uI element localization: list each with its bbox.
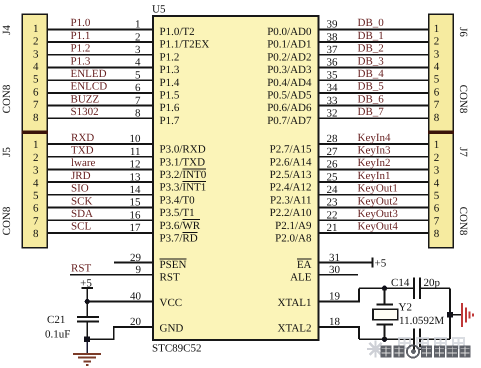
- wire net ENLED (J4.5 to U5.5): [47, 79, 153, 81]
- separator bar between J4 and J5: [21, 131, 48, 134]
- svg-text:34: 34: [327, 82, 339, 94]
- svg-text:7: 7: [33, 215, 39, 227]
- crystal Y2 top plate: [377, 304, 393, 306]
- svg-text:12: 12: [130, 159, 141, 171]
- svg-text:6: 6: [33, 203, 39, 215]
- svg-text:26: 26: [327, 159, 339, 171]
- svg-text:P2.3/A11: P2.3/A11: [270, 194, 311, 206]
- svg-text:11: 11: [130, 146, 141, 158]
- wire net lware (J5.3 to U5.12): [47, 168, 153, 170]
- wire net KeyOut3 (U5.22 to J7.7): [319, 219, 429, 221]
- svg-text:7: 7: [434, 215, 440, 227]
- capacitor C14b (bottom) left plate: [413, 329, 415, 351]
- separator bar between J6 and J7: [428, 131, 454, 134]
- svg-text:J6: J6: [457, 27, 469, 37]
- svg-text:1: 1: [135, 19, 141, 31]
- svg-text:19: 19: [329, 291, 341, 303]
- svg-text:14: 14: [130, 184, 142, 196]
- ground (C21) lead: [86, 342, 88, 354]
- svg-text:KeyIn2: KeyIn2: [358, 157, 391, 169]
- svg-text:40: 40: [130, 291, 142, 303]
- svg-text:20p: 20p: [424, 277, 441, 289]
- wire net P1.3 (J4.4 to U5.4): [47, 67, 153, 69]
- svg-text:P0.5/AD5: P0.5/AD5: [267, 90, 312, 102]
- wire right rail (caps to ground): [449, 288, 451, 339]
- svg-text:36: 36: [327, 57, 339, 69]
- svg-text:3: 3: [434, 48, 440, 60]
- svg-text:P2.1/A9: P2.1/A9: [275, 220, 312, 232]
- svg-text:STC89C52: STC89C52: [152, 343, 202, 355]
- wire net RXD (J5.1 to U5.10): [47, 143, 153, 145]
- svg-text:7: 7: [33, 99, 39, 111]
- ground (C21) bar 3: [84, 360, 92, 362]
- svg-text:KeyIn1: KeyIn1: [358, 170, 391, 182]
- svg-text:XTAL2: XTAL2: [278, 322, 312, 334]
- svg-text:1: 1: [434, 139, 440, 151]
- wire net KeyIn1 (U5.25 to J7.4): [319, 181, 429, 183]
- svg-text:KeyIn4: KeyIn4: [358, 132, 391, 144]
- svg-text:22: 22: [327, 209, 338, 221]
- wire net DB_5 (U5.34 to J6.6): [319, 92, 429, 94]
- svg-text:CON8: CON8: [457, 85, 469, 114]
- watermark text 头条@芯闻资讯: [381, 345, 471, 357]
- svg-text:P2.5/A13: P2.5/A13: [270, 169, 312, 181]
- svg-text:J7: J7: [457, 147, 469, 157]
- svg-text:P1.2: P1.2: [160, 51, 180, 63]
- svg-text:SIO: SIO: [71, 183, 89, 195]
- svg-text:2: 2: [434, 36, 440, 48]
- svg-text:37: 37: [327, 44, 339, 56]
- wire net SIO (J5.5 to U5.14): [47, 194, 153, 196]
- svg-text:RST: RST: [71, 263, 91, 275]
- svg-text:6: 6: [135, 82, 141, 94]
- IC U5 STC89C52 body: [153, 16, 319, 340]
- svg-text:P0.6/AD6: P0.6/AD6: [267, 102, 312, 114]
- svg-text:P3.7/RD: P3.7/RD: [160, 233, 198, 245]
- svg-text:8: 8: [135, 108, 141, 120]
- svg-text:2: 2: [33, 36, 39, 48]
- svg-text:P1.3: P1.3: [71, 55, 91, 67]
- wire bottom rail right segment: [421, 338, 450, 340]
- svg-text:EA: EA: [297, 259, 312, 271]
- svg-text:2: 2: [33, 152, 39, 164]
- svg-text:DB_4: DB_4: [358, 68, 385, 80]
- wire net DB_2 (U5.37 to J6.3): [319, 54, 429, 56]
- svg-text:XTAL1: XTAL1: [278, 297, 312, 309]
- capacitor C14b (bottom) right plate: [419, 329, 421, 351]
- svg-text:1: 1: [33, 139, 39, 151]
- node junction right rail: [447, 312, 453, 318]
- wire net BUZZ (J4.7 to U5.7): [47, 105, 153, 107]
- svg-text:DB_3: DB_3: [358, 55, 385, 67]
- ground (crystal) bar 3: [468, 311, 470, 318]
- svg-text:3: 3: [33, 48, 39, 60]
- power +5 (EA) crossbar: [371, 258, 373, 268]
- wire net KeyOut1 (U5.24 to J7.5): [319, 194, 429, 196]
- svg-text:P0.2/AD2: P0.2/AD2: [267, 51, 311, 63]
- svg-text:9: 9: [136, 264, 142, 276]
- svg-text:8: 8: [33, 112, 39, 124]
- connector J5 (CON8): [22, 132, 47, 247]
- svg-text:ALE: ALE: [290, 271, 312, 283]
- wire net TXD (J5.2 to U5.11): [47, 156, 153, 158]
- wire net KeyIn3 (U5.27 to J7.2): [319, 156, 429, 158]
- svg-text:KeyOut3: KeyOut3: [358, 208, 399, 220]
- wire GND (U5.20 down): [87, 327, 153, 339]
- svg-text:3: 3: [135, 44, 141, 56]
- svg-text:6: 6: [434, 86, 440, 98]
- capacitor C14 (top) left plate: [413, 278, 415, 300]
- wire stub ALE (U5.30): [319, 274, 359, 276]
- svg-text:16: 16: [130, 209, 142, 221]
- capacitor C21 upper lead: [86, 302, 88, 317]
- svg-text:DB_0: DB_0: [358, 17, 385, 29]
- wire net SCL (J5.8 to U5.17): [47, 232, 153, 234]
- svg-text:15: 15: [130, 197, 142, 209]
- svg-text:TXD: TXD: [71, 145, 94, 157]
- wire net DB_6 (U5.33 to J6.7): [319, 105, 429, 107]
- svg-text:C14: C14: [391, 277, 410, 289]
- wire net DB_0 (U5.39 to J6.1): [319, 28, 429, 30]
- svg-text:P3.3/INT1: P3.3/INT1: [160, 182, 207, 194]
- connector J7 (CON8): [429, 132, 454, 247]
- svg-text:P2.2/A10: P2.2/A10: [270, 207, 312, 219]
- wire net ENLCD (J4.6 to U5.6): [47, 92, 153, 94]
- svg-text:P0.7/AD7: P0.7/AD7: [267, 115, 312, 127]
- svg-text:P2.7/A15: P2.7/A15: [270, 144, 312, 156]
- svg-text:+5: +5: [80, 277, 92, 289]
- capacitor C14 (top) right plate: [419, 278, 421, 300]
- svg-text:P1.0/T2: P1.0/T2: [160, 26, 195, 38]
- svg-text:2: 2: [135, 31, 141, 43]
- svg-text:20: 20: [130, 316, 142, 328]
- svg-text:GND: GND: [160, 322, 184, 334]
- svg-text:32: 32: [327, 108, 338, 120]
- wire net SCK (J5.6 to U5.15): [47, 207, 153, 209]
- svg-text:7: 7: [135, 95, 141, 107]
- svg-text:31: 31: [329, 252, 340, 264]
- svg-text:RXD: RXD: [71, 132, 94, 144]
- svg-text:P1.6: P1.6: [160, 102, 180, 114]
- svg-text:8: 8: [434, 112, 440, 124]
- svg-text:ENLED: ENLED: [71, 68, 107, 80]
- svg-text:P1.0: P1.0: [71, 17, 91, 29]
- wire net P1.1 (J4.2 to U5.2): [47, 41, 153, 43]
- svg-text:30: 30: [329, 264, 341, 276]
- svg-text:5: 5: [434, 74, 440, 86]
- wire net KeyIn2 (U5.26 to J7.3): [319, 168, 429, 170]
- wire VCC (U5.40 to +5 node): [87, 301, 153, 303]
- svg-text:SDA: SDA: [71, 208, 93, 220]
- svg-text:24: 24: [327, 184, 339, 196]
- svg-text:11.0592M: 11.0592M: [399, 315, 444, 327]
- wire net DB_7 (U5.32 to J6.8): [319, 117, 429, 119]
- wire net JRD (J5.4 to U5.13): [47, 181, 153, 183]
- svg-text:25: 25: [327, 171, 339, 183]
- svg-text:3: 3: [434, 165, 440, 177]
- wire XTAL1 (U5.19 to crystal): [319, 288, 360, 301]
- svg-text:5: 5: [135, 69, 141, 81]
- wire net DB_3 (U5.36 to J6.4): [319, 67, 429, 69]
- svg-text:CON8: CON8: [1, 84, 13, 113]
- wire net DB_4 (U5.35 to J6.5): [319, 79, 429, 81]
- svg-text:5: 5: [33, 190, 39, 202]
- svg-text:13: 13: [130, 171, 142, 183]
- svg-text:28: 28: [327, 133, 339, 145]
- capacitor C21 top plate: [77, 316, 99, 318]
- wire net DB_1 (U5.38 to J6.2): [319, 41, 429, 43]
- svg-text:35: 35: [327, 69, 339, 81]
- wire stub PSEN (U5.29): [114, 262, 153, 264]
- power +5 (VCC rail) lead: [86, 288, 88, 302]
- wire net KeyOut2 (U5.23 to J7.6): [319, 207, 429, 209]
- svg-text:P3.6/WR: P3.6/WR: [160, 220, 201, 232]
- svg-text:KeyIn3: KeyIn3: [358, 145, 391, 157]
- svg-text:1: 1: [33, 23, 39, 35]
- svg-text:P1.1/T2EX: P1.1/T2EX: [160, 39, 210, 51]
- svg-text:C21: C21: [47, 314, 65, 326]
- svg-text:38: 38: [327, 31, 339, 43]
- svg-text:P3.2/INT0: P3.2/INT0: [160, 169, 207, 181]
- wire net P1.0 (J4.1 to U5.1): [47, 28, 153, 30]
- svg-text:U5: U5: [152, 3, 166, 15]
- svg-text:P3.0/RXD: P3.0/RXD: [160, 144, 206, 156]
- svg-text:8: 8: [434, 228, 440, 240]
- node junction C21/GND: [84, 337, 90, 343]
- svg-text:P2.6/A14: P2.6/A14: [270, 156, 312, 168]
- crystal Y2 body: [373, 309, 398, 320]
- wire net KeyOut4 (U5.21 to J7.8): [319, 232, 429, 234]
- svg-text:P3.1/TXD: P3.1/TXD: [160, 156, 206, 168]
- svg-text:DB_7: DB_7: [358, 106, 385, 118]
- svg-text:P0.3/AD3: P0.3/AD3: [267, 64, 312, 76]
- capacitor C21 bottom plate: [77, 321, 99, 323]
- wire top rail XTAL1 node: [359, 287, 413, 289]
- svg-text:23: 23: [327, 197, 339, 209]
- wire net RST (U5.9): [70, 274, 153, 276]
- svg-text:4: 4: [434, 61, 440, 73]
- svg-text:P3.5/T1: P3.5/T1: [160, 207, 195, 219]
- svg-text:P1.4: P1.4: [160, 77, 180, 89]
- watermark ghost text: [399, 338, 464, 348]
- svg-text:BUZZ: BUZZ: [71, 93, 100, 105]
- svg-text:6: 6: [434, 203, 440, 215]
- svg-text:6: 6: [33, 86, 39, 98]
- svg-text:CON8: CON8: [1, 206, 13, 235]
- svg-text:S1302: S1302: [71, 106, 99, 118]
- svg-text:J4: J4: [1, 25, 13, 35]
- node junction on VCC wire: [85, 299, 90, 304]
- svg-text:0.1uF: 0.1uF: [45, 329, 70, 341]
- wire top rail right segment: [421, 287, 450, 289]
- svg-text:P0.4/AD4: P0.4/AD4: [267, 77, 312, 89]
- power +5 (VCC rail) crossbar: [82, 287, 94, 289]
- svg-text:27: 27: [327, 146, 339, 158]
- svg-text:4: 4: [434, 177, 440, 189]
- svg-text:P2.0/A8: P2.0/A8: [275, 233, 312, 245]
- svg-text:P1.1: P1.1: [71, 30, 91, 42]
- node junction bottom of Y2: [382, 337, 387, 342]
- wire EA (U5.31 to +5): [319, 262, 373, 264]
- svg-text:KeyOut4: KeyOut4: [358, 221, 399, 233]
- svg-text:29: 29: [130, 252, 142, 264]
- svg-text:+5: +5: [375, 257, 387, 269]
- wire net P1.2 (J4.3 to U5.3): [47, 54, 153, 56]
- svg-text:P1.5: P1.5: [160, 90, 180, 102]
- svg-text:4: 4: [33, 61, 39, 73]
- svg-text:1: 1: [434, 23, 440, 35]
- wire net S1302 (J4.8 to U5.8): [47, 117, 153, 119]
- svg-text:4: 4: [135, 57, 141, 69]
- svg-text:Y2: Y2: [399, 301, 412, 313]
- svg-text:8: 8: [33, 228, 39, 240]
- svg-text:21: 21: [327, 222, 338, 234]
- ground (C21) bar 2: [78, 357, 96, 359]
- svg-text:CON8: CON8: [457, 207, 469, 236]
- wire XTAL2 (U5.18 to crystal): [319, 327, 360, 339]
- svg-text:P1.2: P1.2: [71, 43, 91, 55]
- svg-text:18: 18: [329, 316, 341, 328]
- crystal Y2 upper lead: [384, 288, 386, 304]
- svg-text:P0.0/AD0: P0.0/AD0: [267, 26, 312, 38]
- wire net KeyIn4 (U5.28 to J7.1): [319, 143, 429, 145]
- svg-text:VCC: VCC: [160, 297, 183, 309]
- svg-text:P1.7: P1.7: [160, 115, 180, 127]
- wire bottom rail XTAL2 node: [359, 338, 413, 340]
- svg-text:2: 2: [434, 152, 440, 164]
- svg-text:DB_1: DB_1: [358, 30, 384, 42]
- svg-text:SCL: SCL: [71, 221, 91, 233]
- svg-text:3: 3: [33, 165, 39, 177]
- svg-text:DB_2: DB_2: [358, 43, 384, 55]
- svg-text:4: 4: [33, 177, 39, 189]
- watermark star logo: [367, 341, 384, 358]
- ground (crystal) lead: [450, 314, 461, 316]
- svg-text:33: 33: [327, 95, 339, 107]
- svg-text:DB_6: DB_6: [358, 93, 385, 105]
- ground (crystal) bar 2: [465, 308, 467, 323]
- svg-text:17: 17: [130, 222, 142, 234]
- svg-text:KeyOut2: KeyOut2: [358, 195, 398, 207]
- crystal Y2 lower lead: [384, 325, 386, 340]
- svg-text:lware: lware: [71, 157, 96, 169]
- ground (crystal) bar 1: [461, 303, 463, 327]
- wire net SDA (J5.7 to U5.16): [47, 219, 153, 221]
- capacitor C21 lower lead: [86, 322, 88, 340]
- svg-text:DB_5: DB_5: [358, 81, 385, 93]
- svg-text:KeyOut1: KeyOut1: [358, 183, 398, 195]
- svg-text:PSEN: PSEN: [160, 259, 187, 271]
- connector J4 (CON8): [22, 14, 47, 132]
- svg-text:5: 5: [434, 190, 440, 202]
- svg-text:P3.4/T0: P3.4/T0: [160, 194, 196, 206]
- svg-text:7: 7: [434, 99, 440, 111]
- svg-text:39: 39: [327, 19, 339, 31]
- svg-text:SCK: SCK: [71, 195, 92, 207]
- svg-text:P0.1/AD1: P0.1/AD1: [267, 39, 311, 51]
- ground (C21) bar 4: [86, 364, 89, 366]
- svg-text:P1.3: P1.3: [160, 64, 180, 76]
- svg-text:J5: J5: [1, 147, 13, 157]
- connector J6 (CON8): [429, 14, 454, 132]
- crystal Y2 bottom plate: [377, 324, 393, 326]
- ground (crystal) bar 4: [472, 314, 474, 317]
- svg-text:10: 10: [130, 133, 142, 145]
- svg-text:P2.4/A12: P2.4/A12: [270, 182, 312, 194]
- svg-text:RST: RST: [160, 271, 180, 283]
- node junction top of Y2: [382, 286, 387, 291]
- svg-text:JRD: JRD: [71, 170, 91, 182]
- svg-text:5: 5: [33, 74, 39, 86]
- svg-text:ENLCD: ENLCD: [71, 81, 108, 93]
- ground (C21) bar 1: [73, 353, 101, 355]
